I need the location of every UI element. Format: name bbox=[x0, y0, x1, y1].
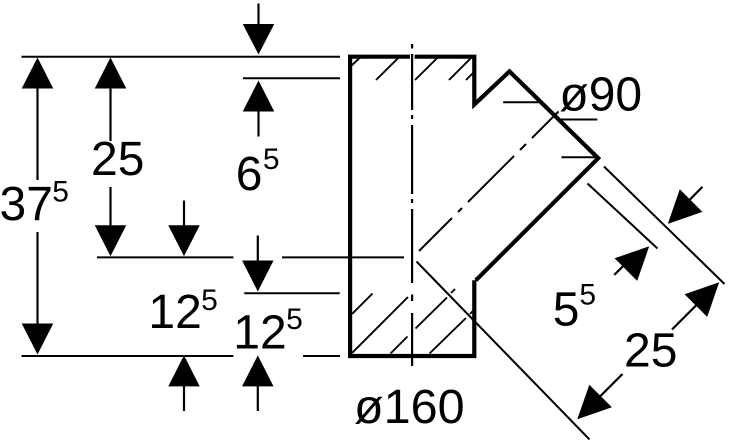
extension line P2 (5.5 dim, inner) bbox=[588, 184, 658, 249]
arrow 25 right lower (points down-left to branch centerline) bbox=[577, 385, 612, 420]
dimension line bottom (y=356) right part bbox=[303, 355, 340, 357]
arrow 5.5 lower (points up-right to P2) bbox=[615, 246, 650, 281]
svg-text:12: 12 bbox=[233, 306, 286, 359]
svg-text:12: 12 bbox=[148, 286, 201, 339]
arrow down at 12.5-1 top bbox=[168, 225, 200, 256]
hatching upper socket band bbox=[351, 57, 474, 80]
dimension line lower (y=293.3) bbox=[244, 292, 340, 294]
svg-text:5: 5 bbox=[579, 278, 596, 311]
dimension line socket depth (y=77.5) bbox=[243, 77, 340, 79]
dimension line top (y=56.7) bbox=[22, 56, 341, 58]
arrow down at 37.5 bottom bbox=[22, 324, 54, 355]
svg-text:5: 5 bbox=[553, 284, 580, 337]
fitting body outline (45-degree branch section) bbox=[350, 57, 598, 356]
arrow down at 6.5 top (above top line) bbox=[243, 24, 275, 55]
dimension line mid (y=257.4) right part into body bbox=[282, 256, 404, 258]
svg-text:37: 37 bbox=[0, 178, 53, 231]
extension line P1 (5.5 dim, outer) bbox=[604, 167, 725, 285]
svg-text:6: 6 bbox=[236, 148, 263, 201]
dia90 tick T3 bbox=[562, 156, 597, 158]
arrow up at 25 top bbox=[95, 58, 127, 89]
arrow up at 37.5 top bbox=[22, 58, 54, 89]
svg-text:ø160: ø160 bbox=[354, 380, 465, 434]
vertical centerline (dash-dot) bbox=[411, 44, 413, 366]
branch centerline (solid thin, 45 deg) bbox=[417, 262, 590, 440]
dimension line mid (y=257.4) left part bbox=[97, 256, 233, 258]
svg-text:5: 5 bbox=[286, 303, 303, 336]
arrow up at 12.5-1 bottom bbox=[168, 355, 200, 386]
svg-text:25: 25 bbox=[91, 133, 144, 186]
svg-text:5: 5 bbox=[263, 143, 280, 176]
svg-text:5: 5 bbox=[52, 176, 69, 209]
arrow 5.5 upper (points down-left to P1) bbox=[668, 189, 703, 224]
dia90 tick T1 bbox=[503, 101, 538, 103]
arrow 25 right upper (points up-right to P1) bbox=[685, 282, 720, 317]
arrow up at 6.5 bottom (below socket line) bbox=[243, 81, 275, 112]
arrow down at 25 bottom bbox=[95, 225, 127, 256]
hatching lower body bbox=[352, 289, 474, 354]
arrow down at 12.5-2 top bbox=[242, 261, 273, 292]
dimension line bottom (y=356) left part bbox=[22, 355, 234, 357]
dia90 underline tick T2 bbox=[559, 119, 597, 121]
svg-text:25: 25 bbox=[624, 325, 677, 378]
arrow up at 12.5-2 bottom bbox=[242, 355, 273, 386]
svg-text:5: 5 bbox=[201, 284, 218, 317]
svg-text:ø90: ø90 bbox=[559, 68, 642, 121]
dia90 leader line (dash-dot, -45 deg) bbox=[419, 112, 559, 252]
